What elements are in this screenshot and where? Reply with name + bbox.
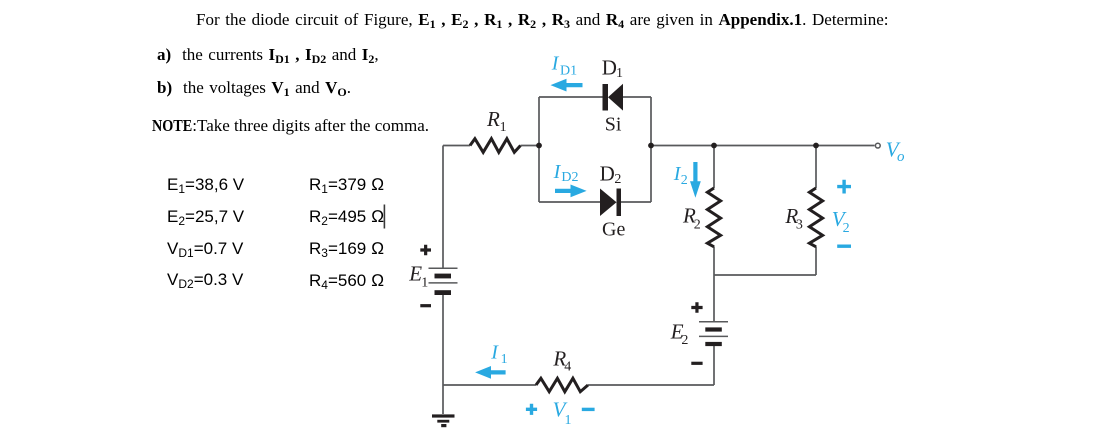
svg-text:2: 2 [694,217,701,232]
svg-text:I: I [551,53,560,75]
svg-text:4: 4 [564,359,571,374]
svg-text:2: 2 [681,333,688,348]
svg-text:Si: Si [605,114,622,136]
svg-text:1: 1 [500,120,507,135]
svg-text:I: I [553,161,562,183]
svg-text:D: D [602,56,617,80]
svg-text:D1: D1 [560,63,577,78]
svg-text:D2: D2 [561,170,578,185]
svg-text:2: 2 [843,221,850,236]
svg-text:2: 2 [614,172,621,187]
svg-text:E: E [408,262,422,286]
svg-text:3: 3 [796,218,803,233]
svg-text:o: o [897,149,905,165]
svg-text:Ge: Ge [602,218,625,240]
svg-text:1: 1 [565,413,572,428]
svg-text:1: 1 [501,352,508,367]
svg-text:D: D [600,161,615,185]
svg-text:1: 1 [421,275,428,290]
svg-text:I: I [490,341,499,363]
svg-text:R: R [486,107,500,131]
svg-text:1: 1 [616,66,623,81]
svg-text:2: 2 [681,173,688,188]
